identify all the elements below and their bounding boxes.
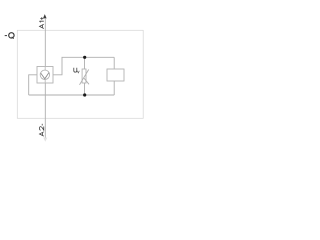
label A1+ [40, 17, 44, 28]
terminal A1 arrow [43, 14, 47, 18]
wire: varistor bottom stub [84, 83, 86, 95]
coil chevron mark [41, 73, 49, 79]
device outline dashed frame [17, 30, 143, 118]
terminal A2 arrow [43, 138, 47, 142]
wire: coil left loop down [29, 75, 37, 95]
junction node top [83, 56, 86, 59]
wire: bottom horizontal bus [29, 94, 115, 96]
wire: coil right up and top horizontal bus [53, 57, 114, 75]
varistor lower tail stroke [84, 78, 89, 84]
junction node bottom [83, 93, 86, 96]
varistor diagonal stroke [80, 70, 89, 85]
label U subscript mark [77, 71, 79, 73]
coil inner stub top [44, 67, 46, 71]
wire: main vertical from A1 to coil [44, 18, 46, 66]
coil inner stub bottom [44, 79, 46, 83]
label U of varistor [74, 68, 77, 72]
label -Q [5, 33, 14, 39]
wire: resistor branch top stub [113, 57, 115, 69]
resistor R1 box [107, 69, 124, 81]
wire: varistor branch top stub [84, 57, 86, 69]
coil U1 box [37, 67, 53, 84]
wire: coil bottom to A2 [44, 83, 46, 140]
label A2- [40, 124, 44, 136]
varistor body [82, 69, 86, 83]
wire: resistor bottom stub [113, 81, 115, 95]
coil circle symbol [40, 70, 49, 79]
